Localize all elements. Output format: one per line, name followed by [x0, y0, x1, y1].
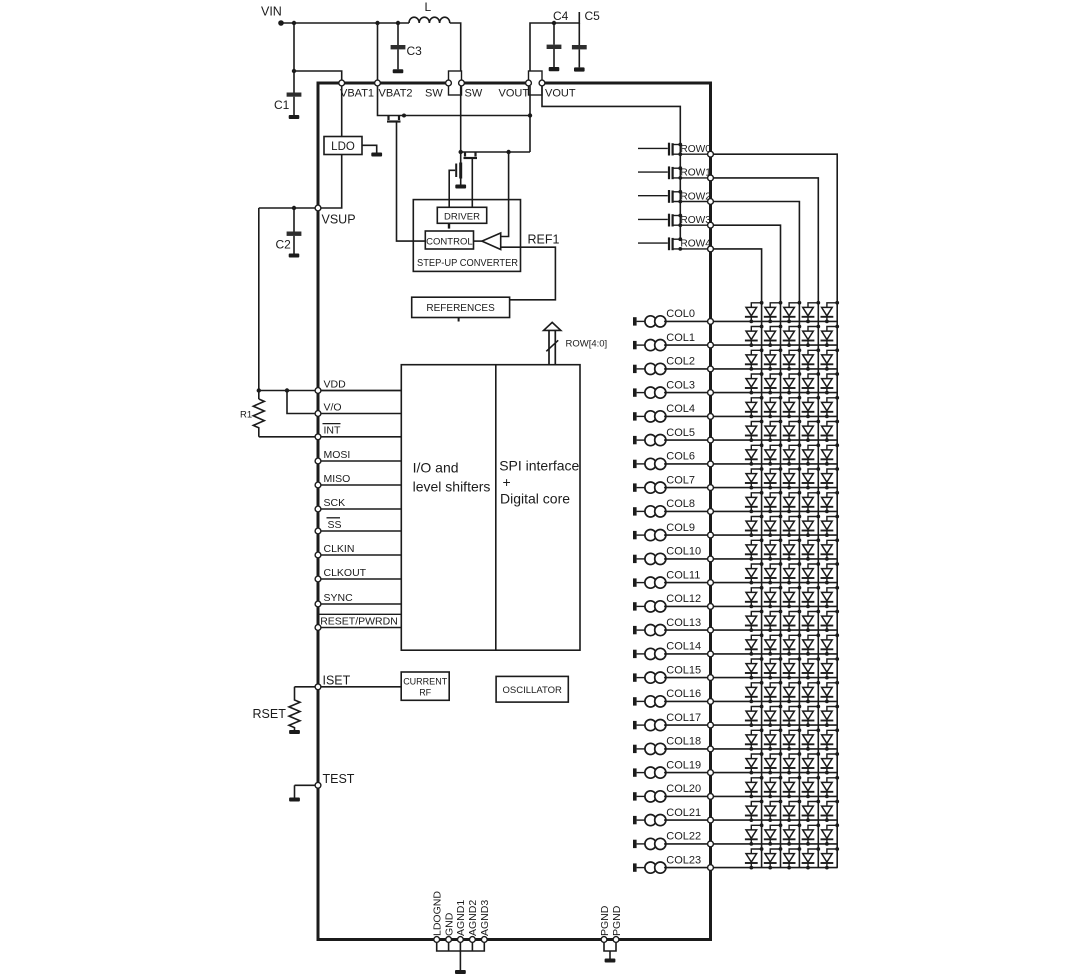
svg-text:COL10: COL10 — [666, 546, 701, 558]
svg-text:COL5: COL5 — [666, 427, 695, 439]
LED row4 col21 — [745, 800, 764, 822]
bus ROW[4:0] arrow — [544, 322, 561, 364]
current source COL11 — [633, 577, 666, 588]
pin COL17 — [708, 722, 714, 728]
wire SW down — [460, 86, 462, 163]
svg-text:COL18: COL18 — [666, 736, 701, 748]
LED row3 col5 — [764, 420, 783, 442]
transistor Q2 rectifier PMOS — [464, 152, 478, 158]
pin SW — [459, 80, 465, 86]
wire COL0 matrix line — [713, 320, 837, 322]
svg-text:C3: C3 — [407, 44, 423, 58]
LED row3 col19 — [764, 752, 783, 774]
pin ROW1 — [708, 175, 714, 181]
LED row4 col23 — [745, 847, 764, 869]
current source COL13 — [633, 625, 666, 636]
svg-text:ROW3: ROW3 — [680, 215, 711, 226]
pin COL3 — [708, 390, 714, 396]
pin COL16 — [708, 699, 714, 705]
svg-text:DRIVER: DRIVER — [444, 211, 480, 222]
inductor L — [409, 17, 450, 23]
wire pin CLKIN — [318, 554, 401, 556]
resistor RSET — [289, 687, 300, 730]
LED row3 col2 — [764, 348, 783, 370]
wire COL3 inside — [664, 392, 708, 394]
current source COL12 — [633, 601, 666, 612]
svg-text:RF: RF — [419, 688, 431, 698]
svg-text:SCK: SCK — [324, 497, 346, 509]
current source COL0 — [633, 316, 666, 327]
wire COL21 matrix line — [713, 819, 837, 821]
wire COL20 inside — [664, 795, 708, 797]
pin label SCK — [324, 497, 346, 509]
current source COL23 — [633, 862, 666, 873]
LED row2 col9 — [783, 515, 802, 537]
block CURRENT RF — [401, 672, 449, 700]
LED row2 col8 — [783, 491, 802, 513]
svg-text:COL0: COL0 — [666, 308, 695, 320]
LED row2 col19 — [783, 752, 802, 774]
LED row3 col23 — [764, 847, 783, 869]
current source COL4 — [633, 411, 666, 422]
svg-text:SPI interface: SPI interface — [499, 458, 579, 474]
pin COL19 — [708, 770, 714, 776]
LED row4 col5 — [745, 420, 764, 442]
wire COL2 inside — [664, 368, 708, 370]
pin SS — [315, 528, 321, 534]
svg-text:COL12: COL12 — [666, 593, 701, 605]
svg-text:REF1: REF1 — [528, 233, 560, 247]
svg-text:PGND: PGND — [599, 905, 611, 936]
wire COL15 inside — [664, 677, 708, 679]
svg-text:AGND1: AGND1 — [455, 900, 467, 936]
LED row2 col12 — [783, 586, 802, 608]
wire COL6 matrix line — [713, 463, 837, 465]
LED row1 col23 — [802, 847, 821, 869]
LED row0 col6 — [821, 443, 840, 465]
wire COL13 inside — [664, 629, 708, 631]
wire VOUT top rail — [530, 12, 579, 80]
LED row0 col21 — [821, 800, 840, 822]
svg-text:COL16: COL16 — [666, 688, 701, 700]
svg-text:COL7: COL7 — [666, 474, 695, 486]
svg-text:COL15: COL15 — [666, 664, 701, 676]
LED row1 col3 — [802, 372, 821, 394]
LED row3 col3 — [764, 372, 783, 394]
svg-text:COL11: COL11 — [666, 569, 700, 581]
pin label MOSI — [324, 449, 351, 461]
svg-text:COL4: COL4 — [666, 403, 695, 415]
wire pin RESET/PWRDN — [318, 627, 401, 629]
svg-text:C4: C4 — [553, 9, 569, 23]
pin ROW4 — [708, 246, 714, 252]
wire COL15 matrix line — [713, 677, 837, 679]
svg-text:RESET/PWRDN: RESET/PWRDN — [320, 615, 398, 627]
LED row2 col7 — [783, 467, 802, 489]
wire ISET — [295, 686, 402, 688]
LED row2 col1 — [783, 325, 802, 347]
wire COL19 matrix line — [713, 772, 837, 774]
transistor Q3 switch NMOS — [449, 163, 461, 208]
svg-text:AGND2: AGND2 — [467, 900, 479, 936]
wire references stub — [458, 318, 460, 322]
pin label V/O — [324, 401, 342, 413]
pin PGND — [613, 937, 619, 943]
LED row4 col18 — [745, 728, 764, 750]
pin VBAT1 — [339, 80, 345, 86]
LED row1 col7 — [802, 467, 821, 489]
wire ROW2 to matrix — [713, 202, 799, 868]
IC boundary box — [318, 83, 711, 940]
block STEP-UP CONVERTER — [413, 200, 520, 272]
LED row1 col0 — [802, 301, 821, 323]
svg-text:I/O and: I/O and — [413, 460, 459, 476]
wire COL23 matrix line — [713, 867, 837, 869]
text SPI interface + Digital core — [499, 458, 579, 507]
op-amp comparator — [482, 233, 501, 250]
LED row2 col16 — [783, 681, 802, 703]
wire pin SYNC — [318, 603, 401, 605]
capacitor C4 — [547, 23, 562, 71]
transistor Q1 bypass PMOS — [387, 116, 401, 122]
svg-text:CLKOUT: CLKOUT — [324, 567, 367, 579]
svg-text:GND: GND — [443, 912, 455, 936]
wire pin SS — [318, 530, 401, 532]
LED row1 col11 — [802, 562, 821, 584]
svg-text:VIN: VIN — [261, 5, 282, 19]
wire COL9 matrix line — [713, 534, 837, 536]
current source COL18 — [633, 743, 666, 754]
wire COL5 inside — [664, 439, 708, 441]
svg-text:SYNC: SYNC — [324, 592, 354, 604]
current source COL21 — [633, 815, 666, 826]
svg-text:RSET: RSET — [253, 707, 287, 721]
LED row2 col20 — [783, 776, 802, 798]
pin square VOUT/VOUT — [529, 71, 543, 95]
LED row4 col22 — [745, 823, 764, 845]
LED row4 col2 — [745, 348, 764, 370]
wire COL23 inside — [664, 867, 708, 869]
LED row0 col1 — [821, 325, 840, 347]
wire driver-control stub — [448, 223, 450, 228]
LED row0 col16 — [821, 681, 840, 703]
LED row3 col1 — [764, 325, 783, 347]
svg-text:ISET: ISET — [323, 673, 351, 687]
LED row0 col4 — [821, 396, 840, 418]
wire COL13 matrix line — [713, 629, 837, 631]
pin COL15 — [708, 675, 714, 681]
wire VBAT1 to LDO — [341, 86, 343, 137]
capacitor C3 — [391, 23, 406, 73]
wire REF1 — [501, 247, 556, 300]
LED row1 col1 — [802, 325, 821, 347]
junction C3 tap — [396, 21, 400, 25]
LED row3 col17 — [764, 705, 783, 727]
transistor ROW0 PMOS driver — [638, 143, 708, 157]
wire COL11 matrix line — [713, 582, 837, 584]
wire comparator out — [474, 240, 482, 242]
svg-text:OSCILLATOR: OSCILLATOR — [503, 685, 562, 696]
svg-text:VDD: VDD — [324, 378, 347, 390]
svg-text:AGND3: AGND3 — [479, 900, 491, 936]
wire COL5 matrix line — [713, 439, 837, 441]
junction VBAT2 tap — [375, 21, 379, 25]
junction C1 tap — [292, 21, 296, 25]
LED row2 col4 — [783, 396, 802, 418]
pin AGND1 — [458, 937, 464, 943]
LED row0 col9 — [821, 515, 840, 537]
wire LDO to VSUP — [259, 155, 342, 209]
LED row3 col11 — [764, 562, 783, 584]
LED row0 col0 — [821, 301, 840, 323]
LED row3 col9 — [764, 515, 783, 537]
wire COL17 matrix line — [713, 724, 837, 726]
pin COL5 — [708, 437, 714, 443]
pin TEST — [315, 782, 321, 788]
LED row4 col15 — [745, 657, 764, 679]
wire VBAT2 drop — [377, 23, 379, 80]
pin GND — [446, 937, 452, 943]
ground PGND stem — [605, 951, 616, 963]
wire L to SW — [450, 23, 461, 80]
svg-text:Digital core: Digital core — [500, 491, 570, 507]
pin label RESET/PWRDN — [320, 614, 401, 627]
pin COL23 — [708, 865, 714, 871]
pin COL4 — [708, 414, 714, 420]
wire COL1 matrix line — [713, 344, 837, 346]
svg-text:VBAT2: VBAT2 — [379, 88, 413, 100]
svg-text:CLKIN: CLKIN — [324, 543, 355, 555]
LED row0 col17 — [821, 705, 840, 727]
current source COL9 — [633, 530, 666, 541]
LED row2 col2 — [783, 348, 802, 370]
svg-text:COL22: COL22 — [666, 831, 701, 843]
LED row1 col18 — [802, 728, 821, 750]
LED row2 col23 — [783, 847, 802, 869]
wire pin MISO — [318, 484, 401, 486]
LED row0 col19 — [821, 752, 840, 774]
LED row1 col14 — [802, 633, 821, 655]
block LDO — [324, 137, 362, 155]
current source COL14 — [633, 648, 666, 659]
pin SYNC — [315, 601, 321, 607]
transistor ROW4 PMOS driver — [638, 237, 708, 251]
wire COL22 matrix line — [713, 843, 837, 845]
LED row4 col0 — [745, 301, 764, 323]
wire ROW4 to matrix — [713, 249, 761, 868]
wire COL4 matrix line — [713, 415, 837, 417]
wire AGND bus — [437, 940, 485, 952]
svg-text:SW: SW — [465, 88, 483, 100]
svg-text:REFERENCES: REFERENCES — [426, 303, 495, 314]
svg-text:ROW[4:0]: ROW[4:0] — [566, 338, 608, 349]
LED row3 col6 — [764, 443, 783, 465]
LED row0 col8 — [821, 491, 840, 513]
wire COL18 inside — [664, 748, 708, 750]
svg-text:ROW2: ROW2 — [680, 191, 711, 202]
LED row4 col12 — [745, 586, 764, 608]
pin MISO — [315, 482, 321, 488]
pin V/O — [315, 411, 321, 417]
pin AGND2 — [470, 937, 476, 943]
svg-text:COL20: COL20 — [666, 783, 701, 795]
LED row2 col15 — [783, 657, 802, 679]
svg-text:LDOGND: LDOGND — [432, 891, 444, 936]
svg-text:COL23: COL23 — [666, 854, 701, 866]
pin VDD — [315, 388, 321, 394]
LED row1 col21 — [802, 800, 821, 822]
svg-text:C5: C5 — [585, 9, 601, 23]
LED row1 col16 — [802, 681, 821, 703]
LED row1 col8 — [802, 491, 821, 513]
pin INT — [315, 434, 321, 440]
junction Q1 drain — [402, 114, 406, 118]
LED row4 col10 — [745, 538, 764, 560]
LED row3 col4 — [764, 396, 783, 418]
wire COL2 matrix line — [713, 368, 837, 370]
svg-text:COL17: COL17 — [666, 712, 701, 724]
pin VOUT — [526, 80, 532, 86]
pin COL21 — [708, 817, 714, 823]
LED row3 col15 — [764, 657, 783, 679]
LED row3 col10 — [764, 538, 783, 560]
transistor ROW3 PMOS driver — [638, 214, 708, 228]
pin CLKIN — [315, 552, 321, 558]
pin COL18 — [708, 746, 714, 752]
LED row2 col13 — [783, 610, 802, 632]
pin ROW3 — [708, 222, 714, 228]
block CONTROL — [425, 231, 473, 249]
wire COL12 matrix line — [713, 605, 837, 607]
svg-text:COL3: COL3 — [666, 379, 695, 391]
junction VBAT1 branch — [292, 69, 296, 73]
svg-text:ROW4: ROW4 — [680, 239, 711, 250]
svg-text:CURRENT: CURRENT — [403, 677, 448, 687]
LED row0 col20 — [821, 776, 840, 798]
pin label MISO — [324, 473, 351, 485]
wire VOUT down — [529, 86, 531, 152]
LED row3 col20 — [764, 776, 783, 798]
wire COL21 inside — [664, 819, 708, 821]
current source COL20 — [633, 791, 666, 802]
pin COL8 — [708, 509, 714, 515]
LED row0 col14 — [821, 633, 840, 655]
wire pin VDD — [318, 390, 401, 392]
LED row3 col21 — [764, 800, 783, 822]
wire COL8 inside — [664, 510, 708, 512]
svg-text:TEST: TEST — [323, 772, 355, 786]
current source COL16 — [633, 696, 666, 707]
svg-text:VSUP: VSUP — [322, 213, 356, 227]
pin COL2 — [708, 366, 714, 372]
pin SCK — [315, 506, 321, 512]
wire COL6 inside — [664, 463, 708, 465]
pin COL22 — [708, 841, 714, 847]
LED row1 col19 — [802, 752, 821, 774]
svg-text:CONTROL: CONTROL — [426, 236, 472, 247]
wire VOUT feed to rows — [542, 86, 680, 239]
LED row2 col21 — [783, 800, 802, 822]
pin COL6 — [708, 461, 714, 467]
wire COL0 inside — [664, 320, 708, 322]
LED row0 col18 — [821, 728, 840, 750]
pin COL9 — [708, 532, 714, 538]
wire feedback into comparator — [501, 152, 509, 237]
svg-text:V/O: V/O — [324, 401, 342, 413]
wire VDD — [259, 390, 402, 392]
wire COL10 inside — [664, 558, 708, 560]
wire COL14 inside — [664, 653, 708, 655]
LED row2 col11 — [783, 562, 802, 584]
LED row1 col4 — [802, 396, 821, 418]
pin AGND3 — [481, 937, 487, 943]
svg-text:STEP-UP CONVERTER: STEP-UP CONVERTER — [417, 258, 518, 269]
wire ROW1 to matrix — [713, 178, 818, 868]
LED row3 col14 — [764, 633, 783, 655]
LED row0 col7 — [821, 467, 840, 489]
LED row1 col17 — [802, 705, 821, 727]
current source COL3 — [633, 387, 666, 398]
wire COL16 matrix line — [713, 700, 837, 702]
pin COL1 — [708, 342, 714, 348]
junction feedback tap — [506, 150, 510, 154]
LED row3 col18 — [764, 728, 783, 750]
wire COL12 inside — [664, 605, 708, 607]
wire rectifier line — [461, 151, 530, 153]
svg-text:SS: SS — [328, 519, 342, 531]
junction V/O tap — [285, 388, 289, 392]
pin COL0 — [708, 319, 714, 325]
LED row1 col13 — [802, 610, 821, 632]
wire COL9 inside — [664, 534, 708, 536]
pin label VDD — [324, 378, 347, 390]
LED row2 col10 — [783, 538, 802, 560]
pin COL14 — [708, 651, 714, 657]
wire PGND bus — [604, 940, 616, 952]
pin LDOGND — [434, 937, 440, 943]
pin label INT — [323, 424, 342, 437]
LED row1 col22 — [802, 823, 821, 845]
wire pin SCK — [318, 508, 401, 510]
block DRIVER — [437, 207, 486, 223]
LED row0 col23 — [821, 847, 840, 869]
LED row2 col3 — [783, 372, 802, 394]
svg-text:COL6: COL6 — [666, 451, 695, 463]
divider — [495, 365, 497, 651]
current source COL19 — [633, 767, 666, 778]
junction bypass/VOUT — [528, 113, 532, 117]
wire COL22 inside — [664, 843, 708, 845]
LED row2 col22 — [783, 823, 802, 845]
LED row3 col13 — [764, 610, 783, 632]
resistor R1 — [253, 399, 264, 437]
svg-text:SW: SW — [425, 88, 443, 100]
wire pin MOSI — [318, 460, 401, 462]
LED row2 col0 — [783, 301, 802, 323]
pin COL7 — [708, 485, 714, 491]
current source COL7 — [633, 482, 666, 493]
pin label CLKOUT — [324, 567, 367, 579]
wire Q2 gate to driver — [471, 159, 473, 208]
pin ISET — [315, 684, 321, 690]
wire VSUP rail down — [258, 208, 260, 399]
block OSCILLATOR — [496, 676, 568, 702]
LED row2 col17 — [783, 705, 802, 727]
current source COL5 — [633, 435, 666, 446]
LED row4 col13 — [745, 610, 764, 632]
junction C4 tap — [552, 21, 556, 25]
wire V/O link — [287, 391, 318, 414]
